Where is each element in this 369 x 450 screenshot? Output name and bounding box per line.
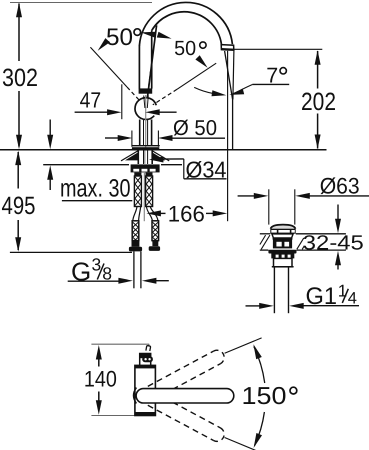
- svg-text:202: 202: [301, 88, 336, 116]
- cap slot left: [271, 230, 277, 233]
- thread collar: [274, 258, 293, 266]
- 150 arrow up: [253, 344, 261, 359]
- castellation slot 1: [276, 255, 279, 259]
- degree sign right 50: [200, 42, 206, 48]
- svg-text:50: 50: [174, 37, 196, 60]
- 140 ext line bottom: [91, 415, 145, 417]
- arrow up 495: [15, 151, 21, 166]
- G114 underline: [303, 305, 359, 307]
- faucet centre axis line: [145, 95, 147, 150]
- svg-text:50: 50: [106, 24, 133, 51]
- G3/8 arrow left: [142, 278, 157, 284]
- valve funnel: [272, 234, 293, 238]
- shank right edge: [151, 150, 153, 164]
- shank left edge: [137, 150, 139, 164]
- 32-45 upper shaft: [337, 205, 339, 221]
- valve window right: [284, 242, 289, 247]
- O50 ext line left: [131, 131, 133, 147]
- hinge dot left: [144, 358, 146, 360]
- svg-text:Ø 50: Ø 50: [173, 116, 217, 140]
- svg-text:3: 3: [92, 255, 102, 275]
- hose curve right a: [146, 207, 152, 221]
- O63 ext line right: [294, 189, 296, 224]
- body cylinder plan: [135, 365, 156, 415]
- faucet centre axis in shank: [144, 150, 146, 164]
- neck left edge: [139, 120, 141, 147]
- G114 arrow left: [289, 303, 304, 309]
- hinge dot right: [148, 358, 150, 360]
- dimension line 495 lower: [17, 220, 19, 250]
- 140 arrow down: [96, 400, 102, 415]
- counter hatch wedge left: [125, 153, 138, 161]
- counter hatch wedge right: [153, 153, 166, 161]
- O63 arrow right: [254, 193, 268, 199]
- G3/8 underline: [68, 280, 120, 282]
- valve collar line: [273, 238, 293, 240]
- lever edge in pivot left: [144, 96, 145, 109]
- nut slot 2: [142, 169, 148, 172]
- counter underside right: [161, 164, 182, 166]
- water stream line 7deg: [225, 51, 233, 149]
- svg-text:166: 166: [168, 201, 205, 226]
- max30 upper shaft: [49, 120, 51, 137]
- right tilted lever axis: [177, 63, 216, 89]
- 47 dim line left: [75, 111, 109, 113]
- body right edge: [151, 31, 153, 89]
- G3/8 dim stub right: [155, 280, 168, 282]
- 166 arrow right: [213, 210, 228, 216]
- left tilted lever axis: [90, 47, 127, 87]
- counter underside left: [43, 164, 129, 166]
- body bottom band: [135, 412, 156, 416]
- 47 dim line right: [159, 111, 177, 113]
- 32-45 arrow down: [335, 219, 341, 234]
- counter hatch line left: [121, 151, 138, 161]
- svg-text:4: 4: [348, 290, 357, 308]
- hose braid left: [134, 176, 141, 207]
- 202 arrow down: [315, 135, 321, 150]
- 140 dim line lower: [98, 392, 100, 402]
- stopper dome: [271, 225, 296, 229]
- tilt arrow left: [141, 32, 156, 38]
- hose tube right line: [140, 251, 142, 288]
- O34 box left edge: [183, 159, 185, 179]
- 140 arrow up: [96, 345, 102, 360]
- O34 underline: [184, 178, 227, 180]
- castellation slot 3: [288, 255, 291, 259]
- 202 dim line lower: [317, 114, 319, 149]
- basin deck top left: [260, 233, 270, 235]
- svg-text:G: G: [71, 257, 91, 287]
- O50 arrow left: [158, 135, 173, 141]
- deck hatch right 1: [297, 238, 304, 249]
- 140 ext line top: [91, 343, 149, 345]
- svg-text:Ø34: Ø34: [186, 156, 227, 182]
- dimension line 495 upper: [17, 152, 19, 189]
- stopper cap band: [270, 229, 295, 234]
- spout outer curve: [139, 2, 232, 45]
- collar bottom line: [272, 266, 294, 268]
- 7deg underline: [252, 83, 289, 85]
- deck hatch right 2: [302, 246, 304, 250]
- neck inner line 1: [143, 120, 145, 147]
- 7deg right leader arc: [241, 85, 253, 91]
- O34 leader arrow: [149, 157, 164, 163]
- hose connector left: [132, 221, 139, 241]
- G3/8 arrow right: [118, 278, 132, 284]
- deck hatch left 1: [261, 235, 270, 249]
- 166 dim line right stub: [206, 212, 214, 214]
- 47 arrow right: [107, 109, 122, 115]
- cap slot middle: [278, 230, 289, 233]
- deck hatch left 2: [260, 235, 266, 244]
- max30 arrow down: [47, 135, 53, 150]
- svg-text:1: 1: [338, 281, 347, 300]
- dimension line 302 lower: [18, 91, 20, 147]
- swivel axis line lower: [225, 438, 262, 450]
- 150deg arc upper: [254, 347, 265, 384]
- degree sign 7: [280, 68, 286, 74]
- body top band: [135, 365, 156, 368]
- arrow down 302: [16, 135, 22, 150]
- svg-text:47: 47: [80, 88, 102, 113]
- neck inner line 2: [147, 120, 149, 147]
- 32-45 lower shaft: [337, 264, 339, 270]
- arrow up 302: [16, 3, 22, 17]
- 166 arrow left: [146, 210, 161, 216]
- 7deg arrow right: [212, 90, 227, 96]
- svg-text:max. 30: max. 30: [60, 174, 131, 202]
- nut slot 1: [133, 169, 139, 172]
- degree sign 150: [290, 387, 297, 394]
- 32-45 arrow up: [335, 251, 341, 265]
- O50 underline: [171, 137, 225, 139]
- leader arrow left 50deg: [98, 38, 110, 51]
- hose curve left a: [133, 207, 137, 221]
- O50 ext line right: [157, 131, 159, 147]
- max30 underline: [62, 200, 132, 202]
- swivel axis line upper: [225, 338, 262, 353]
- spout inner curve: [152, 12, 222, 44]
- extension line top of faucet: [10, 2, 152, 4]
- hose end reference line: [10, 251, 132, 253]
- body left bulge: [134, 388, 137, 404]
- max30 lower shaft: [49, 179, 51, 191]
- basin deck top right: [296, 233, 346, 235]
- tilt arrow right: [157, 32, 172, 39]
- O63 underline: [309, 195, 369, 197]
- G114 dim stub left: [246, 305, 261, 307]
- 7deg arrow left: [229, 89, 244, 95]
- water stream right edge: [233, 51, 234, 100]
- shank inner 2: [147, 150, 149, 164]
- 166 dim line left stub: [160, 212, 166, 214]
- base plate top: [132, 145, 160, 147]
- hose curve right b: [150, 207, 158, 221]
- bracket top bar: [140, 354, 151, 359]
- 202 dim line upper: [317, 51, 319, 89]
- extension line spout outlet: [234, 48, 322, 50]
- O50 arrow right: [118, 135, 133, 141]
- aerator bottom edge: [221, 48, 233, 51]
- base plate dark band: [132, 147, 159, 150]
- connector body right: [152, 241, 158, 247]
- svg-text:Ø63: Ø63: [320, 173, 360, 198]
- lever knob plan: [146, 346, 151, 351]
- svg-text:302: 302: [2, 64, 38, 92]
- lever pivot circle: [135, 98, 156, 120]
- lever edge in pivot right: [147, 96, 148, 109]
- tailpipe left: [273, 267, 275, 313]
- lever dashed edge: [148, 70, 150, 88]
- G114 arrow right: [259, 303, 274, 309]
- body left edge: [138, 45, 140, 89]
- max30 arrow up: [47, 165, 53, 180]
- lever hinge oval: [142, 356, 153, 362]
- fraction slash 3/8: [97, 264, 104, 280]
- faucet centre axis lower: [143, 173, 145, 202]
- valve flange: [268, 250, 296, 254]
- countertop line: [0, 149, 327, 151]
- ext line hook: [148, 344, 150, 348]
- 47 extension line: [121, 84, 123, 119]
- strip top block right: [146, 173, 153, 177]
- 166 ext line center axis: [143, 202, 145, 221]
- valve window left: [276, 242, 281, 247]
- O34 leader line: [162, 158, 184, 160]
- castellated nut: [271, 254, 294, 259]
- svg-text:495: 495: [2, 192, 36, 220]
- dimension line 302 upper: [18, 4, 20, 62]
- hose curve left b: [139, 207, 141, 221]
- O63 arrow left: [295, 193, 310, 199]
- 202 arrow up: [315, 50, 321, 64]
- tailpipe right: [288, 267, 290, 313]
- svg-text:G1: G1: [306, 283, 338, 310]
- shank inner 1: [143, 150, 145, 164]
- spout plan solid: [136, 389, 234, 403]
- cap slot right: [291, 230, 294, 233]
- 140 dim line upper: [98, 359, 100, 367]
- svg-text:150: 150: [242, 383, 287, 410]
- svg-text:140: 140: [84, 366, 117, 391]
- degree sign left 50: [134, 29, 141, 36]
- left tilted lever axis dashed: [127, 87, 140, 101]
- spout plan swivel down dashed: [148, 393, 227, 444]
- mounting nut: [131, 164, 160, 172]
- svg-text:32-45: 32-45: [303, 232, 364, 255]
- basin deck bottom right: [297, 249, 346, 251]
- 150deg arc lower: [255, 412, 265, 446]
- valve body: [273, 239, 292, 248]
- strip top block left: [134, 173, 141, 177]
- aerator mousseur: [221, 45, 234, 51]
- O63 ext line left: [268, 189, 270, 224]
- 166 ext line outlet: [227, 150, 229, 222]
- counter hatch line right: [152, 151, 169, 161]
- cartridge cap dark band: [139, 88, 153, 93]
- leader arrow right 50deg: [195, 55, 207, 68]
- lever bracket plan: [140, 354, 151, 367]
- outlet vertical reference line: [227, 51, 229, 150]
- 150 arrow down: [254, 433, 262, 448]
- neck right edge: [151, 120, 153, 147]
- 7deg left leader arc: [194, 87, 213, 93]
- fraction slash 1/4: [342, 289, 348, 303]
- O50 dim line left: [105, 137, 119, 139]
- arrow down 495: [15, 237, 21, 252]
- lever handle: [147, 25, 157, 104]
- connector nut left: [129, 247, 142, 252]
- right tilted lever axis dashed: [153, 89, 177, 105]
- castellation slot 2: [282, 255, 285, 259]
- basin deck bottom left: [260, 249, 269, 251]
- O63 dim line left: [238, 195, 256, 197]
- 47 arrow left: [145, 109, 160, 115]
- connector body left: [132, 241, 140, 247]
- spout plan swivel up dashed: [148, 348, 227, 399]
- nut slot 3: [150, 169, 156, 172]
- hose connector right: [152, 221, 159, 241]
- hose braid right: [146, 176, 153, 207]
- hose tube left line: [133, 251, 135, 288]
- connector nut right: [149, 246, 160, 251]
